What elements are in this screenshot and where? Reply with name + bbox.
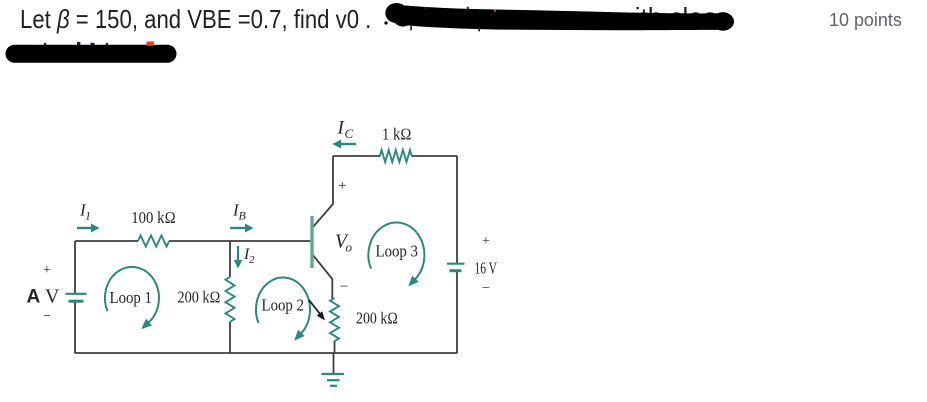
svg-text:1: 1 <box>85 209 91 223</box>
stray ink dot <box>384 21 387 24</box>
points label <box>829 9 902 31</box>
wire bottom <box>75 352 457 354</box>
resistor 100k (horizontal) <box>138 236 169 247</box>
svg-text:o: o <box>346 240 353 255</box>
svg-text:C: C <box>345 126 354 141</box>
svg-text:−: − <box>43 309 51 324</box>
required asterisk tip (red) <box>147 42 153 46</box>
svg-text:−: − <box>340 279 348 295</box>
wire left vertical <box>74 241 76 353</box>
covered-text tips above scribble 2 <box>44 42 108 45</box>
svg-text:B: B <box>239 209 247 223</box>
svg-text:V: V <box>45 286 60 308</box>
battery source 16V (right) <box>447 264 465 271</box>
svg-text:Loop 1: Loop 1 <box>110 288 153 307</box>
svg-text:200 kΩ: 200 kΩ <box>178 288 221 307</box>
svg-text:A: A <box>27 287 41 308</box>
loop 3 arrow <box>368 223 424 287</box>
resistor 1k (horizontal, top) <box>380 150 412 162</box>
resistor 200k (middle vertical) <box>226 277 235 322</box>
svg-text:100 kΩ: 100 kΩ <box>131 208 176 227</box>
svg-text:−: − <box>482 281 490 296</box>
wire emitter drop <box>313 255 333 299</box>
svg-text:200 kΩ: 200 kΩ <box>356 309 398 328</box>
wire emitter resistor to ground rail <box>334 341 336 353</box>
loop 2 arrow <box>256 278 310 341</box>
svg-text:+: + <box>43 263 51 278</box>
wire top of lower section (node B row) <box>75 240 311 242</box>
wire middle vertical branch <box>229 241 231 353</box>
svg-text:+: + <box>338 178 346 194</box>
hidden text fragment with clear <box>616 2 726 33</box>
loop 1 arrow <box>105 267 159 329</box>
wire right vertical <box>456 156 458 353</box>
covered-text tips around scribble 1 <box>410 7 496 32</box>
svg-text:Loop 3: Loop 3 <box>376 242 419 261</box>
wire ground stub <box>333 353 335 374</box>
current arrow IC <box>333 140 357 149</box>
battery source AV (left) <box>66 294 87 301</box>
marker scribble line 1 <box>384 3 734 31</box>
svg-text:Loop 2: Loop 2 <box>262 296 305 315</box>
svg-text:+: + <box>482 234 490 249</box>
current arrow I1 <box>77 224 100 233</box>
marker scribble line 2 <box>15 45 168 63</box>
ground <box>322 374 345 386</box>
current arrow IB <box>230 224 254 233</box>
pointer arrow at emitter resistor <box>309 300 325 321</box>
svg-text:16 V: 16 V <box>475 259 498 278</box>
current arrow I2 <box>234 246 242 269</box>
question title text <box>20 4 371 35</box>
wire top (collector supply) <box>333 155 457 157</box>
wire collector riser <box>313 156 333 227</box>
resistor 200k (emitter vertical) <box>330 298 339 341</box>
svg-text:2: 2 <box>249 254 255 266</box>
svg-text:1 kΩ: 1 kΩ <box>382 125 412 144</box>
transistor Q1 <box>310 216 313 268</box>
